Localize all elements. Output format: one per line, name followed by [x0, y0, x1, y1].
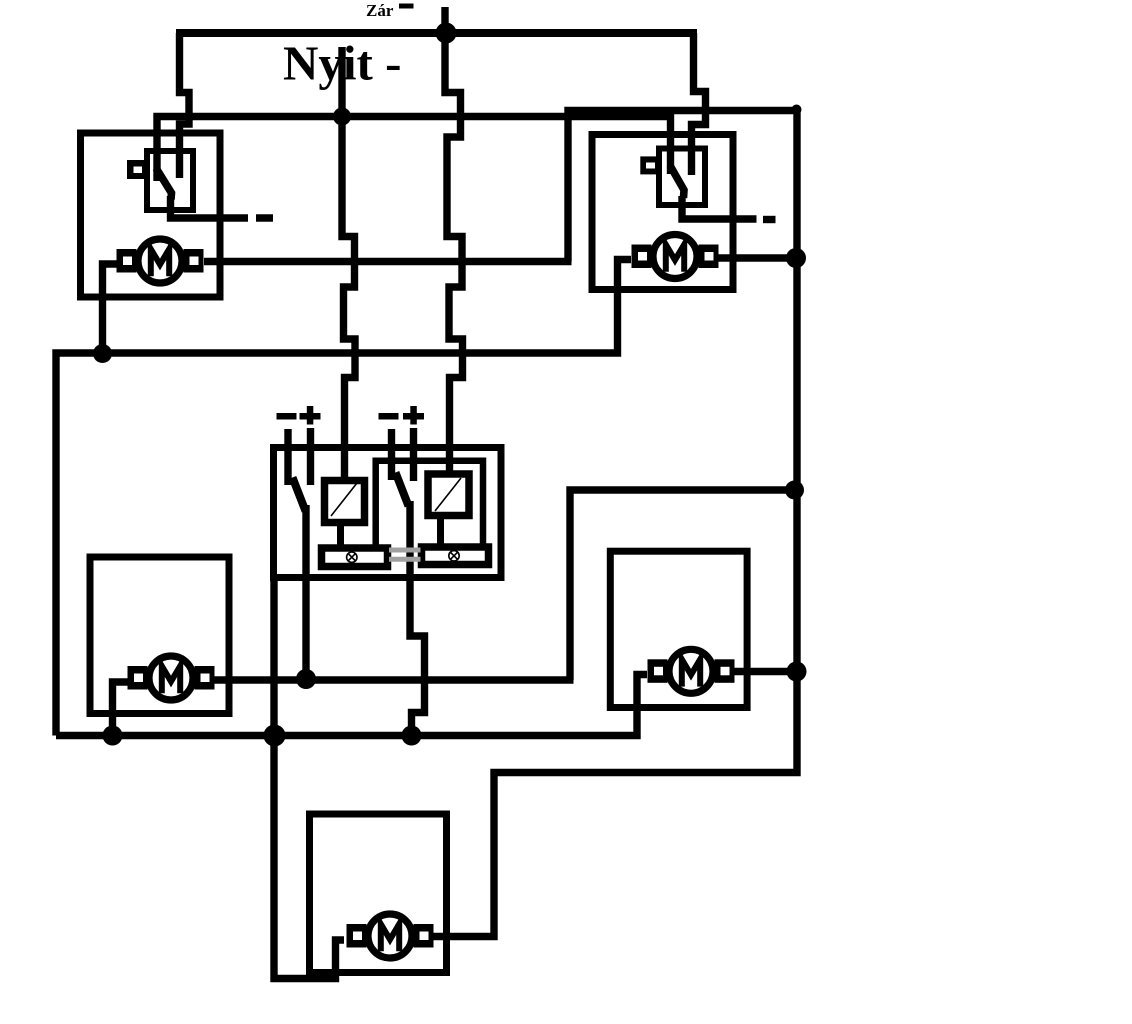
relay coil A bottom stub: [337, 522, 344, 547]
wire: relay box corner down to bottom bus and to bottom motor: [274, 578, 344, 979]
mechanical link (gray) between relay bars: [389, 550, 421, 559]
junction dot right motor on right vertical: [786, 248, 806, 268]
junction dot bottom bus x411: [402, 726, 422, 746]
motor M2 right front: [632, 235, 719, 279]
wire: bottom-left motor left terminal to bottom bus: [113, 682, 129, 736]
junction dot on bus y353: [93, 344, 112, 363]
wire B: from Zar bus down to relay coil B: [445, 33, 463, 474]
junction dot bottom bus x112: [103, 726, 123, 746]
relay coil B: [428, 474, 469, 516]
wire: second top bus y=110.5 with corner down at x=568: [568, 111, 800, 262]
corner dot top right: [792, 105, 802, 115]
wire: Zar stub above bus: [441, 7, 448, 33]
wire: left drop from Zar bus into left door switch: [180, 33, 190, 178]
left door switch blade: [156, 168, 172, 200]
wire: relay right common down to bottom bus: [410, 501, 425, 736]
wire: relay plus stub 2: [410, 428, 417, 481]
wire: relay minus stub 2: [388, 429, 395, 480]
motor M3 rear left: [128, 656, 215, 700]
junction dot middle motor on right vertical: [787, 662, 807, 682]
left door switch: [127, 151, 193, 210]
dash after left switch output: [256, 214, 273, 221]
dash after right switch output: [763, 216, 776, 223]
wire: long horizontal y=261.5 from left motor to x=568: [204, 258, 572, 265]
relay blade left: [293, 478, 306, 512]
wire: right switch output with dash: [682, 196, 757, 219]
svg-text:Nyit -: Nyit -: [283, 36, 401, 91]
motor M4 rear right: [648, 649, 735, 693]
wire: left motor left terminal down to bus y=353: [103, 264, 119, 353]
crossed-circle glyph on left bar: [347, 552, 357, 562]
wire: relay minus stub 1: [284, 429, 291, 485]
wire: relay left common down to y=679 junction: [302, 505, 309, 684]
motor M1 left front: [117, 239, 204, 283]
motor M5 trunk: [347, 914, 434, 958]
junction dot bottom bus x274: [264, 725, 286, 747]
box: rear-left door unit: [90, 557, 229, 714]
box: trunk/fifth door unit: [310, 814, 447, 973]
wire: right vertical x=797 with bottom route to bottom motor: [433, 111, 797, 937]
polarity label - + for right relay: [379, 413, 399, 420]
junction dot y490 on right vertical: [785, 481, 804, 500]
wire: horizontal y=679 from bottom-left motor: [214, 676, 574, 683]
polarity label - + for left relay: [277, 406, 425, 425]
wire: left switch output with dash: [171, 196, 249, 218]
junction dot wire A on Nyit bus: [333, 108, 351, 126]
svg-text:Zár: Zár: [366, 1, 394, 20]
relay coil B bottom stub: [437, 515, 444, 546]
right door switch: [640, 149, 705, 206]
wire: right drop from Zar bus into right door switch: [692, 33, 706, 175]
wire: Nyit bus y=116.5: [157, 117, 671, 182]
junction dot relay left common on y679: [296, 669, 316, 689]
relay coil A: [293, 473, 489, 567]
relay contact bar left: [322, 548, 388, 567]
box: left front door unit: [81, 133, 221, 297]
wire A: from Nyit label down to relay coil A: [342, 47, 355, 481]
wire: top Zar bus y=33: [176, 29, 697, 37]
box: relay unit inner sub-box: [376, 461, 483, 547]
right door switch blade: [670, 166, 684, 199]
wire: middle-right motor right terminal to right vertical: [719, 668, 798, 675]
wire: right motor right terminal to right vertical: [718, 254, 797, 261]
relay contact bar right: [422, 547, 489, 565]
wire: bottom bus y=735.5 with right riser to middle-right motor: [56, 675, 647, 736]
crossed-circle glyph on right bar: [449, 551, 459, 561]
dash after Zar label: [399, 4, 414, 9]
relay blade right: [396, 473, 409, 507]
junction dot at Zar bus: [436, 23, 457, 44]
box: right front door unit: [592, 135, 733, 290]
wire: horizontal y=490 and corner down to y=679: [570, 490, 795, 680]
wire: relay plus stub 1: [307, 428, 314, 485]
box: central relay unit outer: [274, 448, 502, 578]
box: rear-right door unit: [610, 551, 747, 707]
wire: bus y=353 with left riser x=56: [56, 260, 631, 736]
